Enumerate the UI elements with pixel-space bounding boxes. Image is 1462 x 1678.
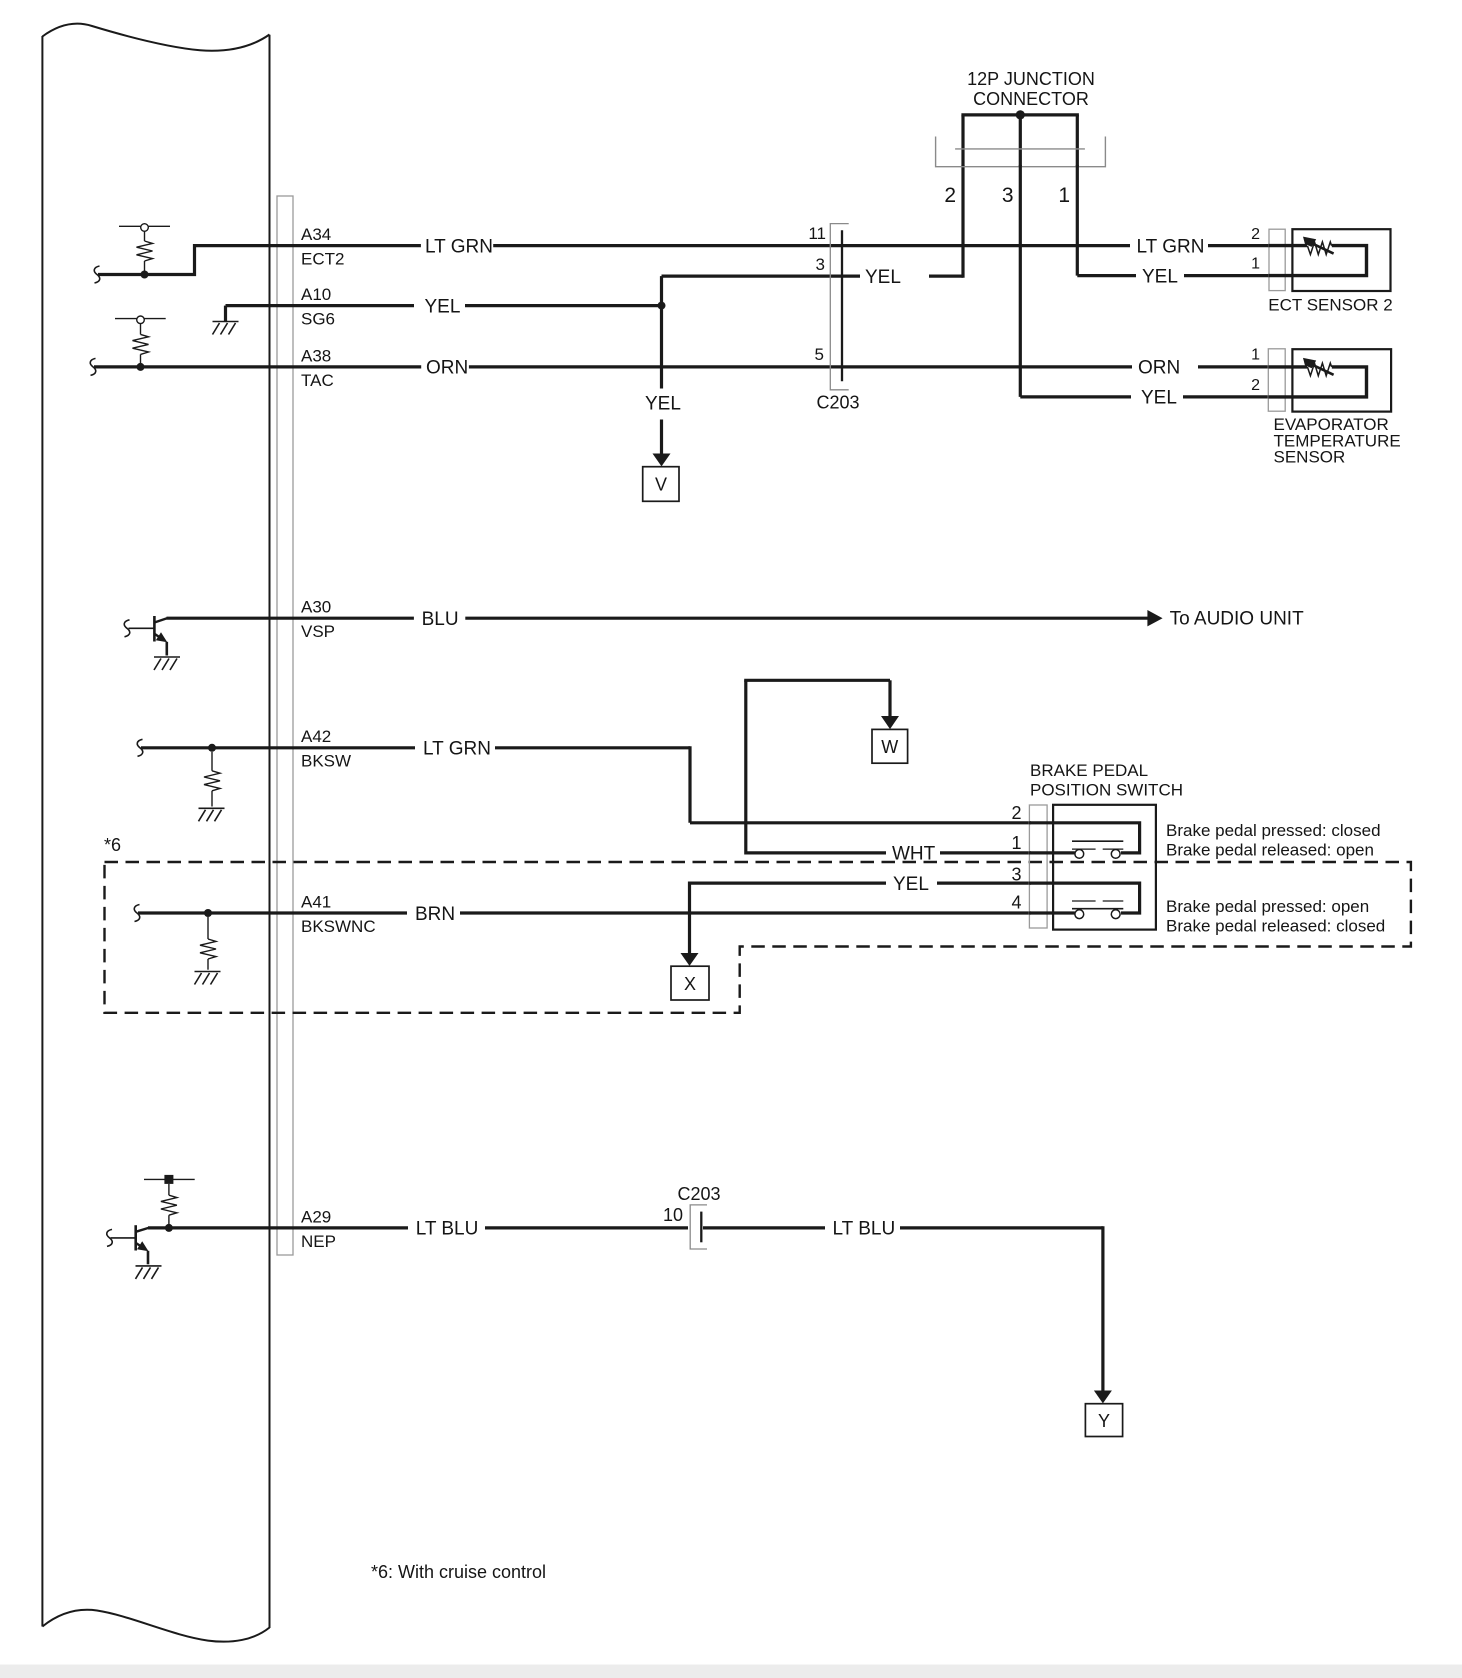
wire break mark A42: [137, 739, 142, 756]
svg-text:A42: A42: [301, 727, 331, 746]
ground symbol (NEP emitter): [136, 1266, 162, 1279]
svg-text:Y: Y: [1098, 1411, 1110, 1431]
svg-text:CONNECTOR: CONNECTOR: [973, 89, 1089, 109]
svg-text:NEP: NEP: [301, 1232, 336, 1251]
svg-text:BKSW: BKSW: [301, 752, 351, 771]
connector C203 (11/3/5): [830, 224, 848, 390]
ECT sensor 2 internal loop: [1268, 246, 1366, 276]
svg-text:A30: A30: [301, 598, 331, 617]
svg-text:11: 11: [808, 224, 826, 243]
resistor pull-down (BKSWNC): [200, 917, 216, 970]
W box: [872, 729, 908, 763]
svg-text:ECT2: ECT2: [301, 250, 344, 269]
svg-text:BKSWNC: BKSWNC: [301, 917, 376, 936]
transistor Q1 (VSP driver): [129, 627, 155, 629]
svg-text:BLU: BLU: [422, 609, 459, 630]
page bottom scan band: [0, 1665, 1462, 1678]
pin label A10 SG6: [301, 285, 335, 329]
wire break mark A41: [134, 905, 139, 922]
svg-text:1: 1: [1251, 347, 1260, 364]
wire A38 TAC / ORN main: [94, 365, 1268, 368]
svg-text:4: 4: [1011, 892, 1021, 912]
svg-text:YEL: YEL: [893, 874, 929, 895]
svg-text:YEL: YEL: [425, 296, 461, 317]
wire A29 NEP / LT BLU: [148, 1226, 1103, 1392]
svg-text:Brake pedal released: open: Brake pedal released: open: [1166, 840, 1374, 859]
thermistor evaporator sensor: [1303, 358, 1334, 376]
svg-text:To AUDIO UNIT: To AUDIO UNIT: [1170, 609, 1304, 630]
wire A30 VSP / BLU: [167, 617, 1149, 620]
junction dot ECT2 pull-up: [141, 271, 149, 279]
svg-text:*6: With cruise control: *6: With cruise control: [371, 1562, 546, 1582]
wire 12P pin3 to evaporator pin2 / YEL: [1020, 165, 1268, 397]
X box: [671, 966, 709, 1000]
svg-text:3: 3: [816, 255, 825, 274]
junction dot BKSW: [208, 744, 216, 752]
ECM/PCM body outline: [42, 24, 269, 1642]
svg-text:YEL: YEL: [1142, 266, 1178, 287]
brake switch connector strip: [1029, 805, 1047, 928]
svg-text:ORN: ORN: [1138, 358, 1180, 379]
wire WHT with W branch: [744, 680, 1031, 854]
svg-text:W: W: [881, 737, 898, 757]
svg-text:YEL: YEL: [1141, 388, 1177, 409]
svg-text:2: 2: [1251, 226, 1260, 243]
ECM connector strip: [277, 196, 293, 1255]
pin label A34 ECT2: [301, 225, 344, 269]
label EVAPORATOR TEMPERATURE SENSOR: [1274, 415, 1401, 467]
note upper switch behaviour: [1166, 821, 1381, 859]
svg-text:1: 1: [1251, 255, 1260, 272]
resistor pull-up (ECT2 line): [119, 224, 170, 275]
svg-text:5: 5: [815, 345, 824, 364]
brake switch upper contact loop: [1029, 823, 1140, 853]
pin label A42 BKSW: [301, 727, 351, 771]
wire 12P pin1 to ECT sensor pin1 / YEL: [1077, 165, 1268, 276]
svg-text:ORN: ORN: [426, 358, 468, 379]
wire C203 pin3 YEL to 12P pin 2: [662, 165, 964, 278]
12P junction connector body: [961, 115, 1079, 167]
resistor pull-down (BKSW): [204, 752, 220, 807]
ground symbol (BKSWNC): [195, 972, 221, 985]
connector C203 pin 10: [690, 1205, 707, 1249]
svg-text:*6: *6: [104, 835, 121, 855]
evaporator sensor box: [1292, 349, 1391, 411]
wire riser from SG6 dot down (to V arrow): [660, 306, 663, 389]
arrow into V box: [653, 420, 671, 467]
svg-text:ECT SENSOR 2: ECT SENSOR 2: [1268, 295, 1392, 314]
svg-text:YEL: YEL: [865, 267, 901, 288]
svg-text:BRN: BRN: [415, 904, 455, 925]
svg-text:A41: A41: [301, 892, 331, 911]
connector C203 inner contact line: [841, 230, 843, 381]
ECT sensor 2 box: [1292, 229, 1390, 291]
svg-text:Brake pedal pressed: open: Brake pedal pressed: open: [1166, 897, 1369, 916]
arrow into Y box: [1094, 1391, 1112, 1404]
Y box: [1085, 1404, 1122, 1437]
brake switch box: [1053, 805, 1156, 930]
svg-text:A29: A29: [301, 1207, 331, 1226]
svg-text:SENSOR: SENSOR: [1274, 448, 1346, 467]
wire break mark A38 internal: [90, 358, 95, 375]
svg-text:LT GRN: LT GRN: [425, 236, 493, 257]
arrow into X box: [681, 953, 699, 966]
svg-text:2: 2: [1251, 377, 1260, 394]
wire riser from SG6 dot up to pin3 wire: [660, 276, 663, 306]
junction dot NEP: [165, 1224, 173, 1232]
svg-text:Brake pedal pressed: closed: Brake pedal pressed: closed: [1166, 821, 1381, 840]
wire SG6 internal drop to ground: [224, 306, 227, 322]
wire A34 internal: [98, 246, 293, 275]
pin label A41 BKSWNC: [301, 892, 376, 936]
wire break mark NEP base: [107, 1229, 112, 1246]
wire A34 / LT GRN main: [293, 244, 1268, 247]
svg-text:12P JUNCTION: 12P JUNCTION: [967, 69, 1095, 89]
svg-text:Brake pedal released: closed: Brake pedal released: closed: [1166, 916, 1385, 935]
dashed option box *6: [105, 862, 1411, 1013]
ground symbol (VSP emitter): [154, 657, 180, 670]
svg-text:10: 10: [663, 1205, 683, 1225]
svg-text:A34: A34: [301, 225, 331, 244]
pin label A38 TAC: [301, 346, 334, 390]
resistor pull-up (TAC line): [115, 316, 166, 367]
junction dot SG6/C203 riser: [658, 302, 666, 310]
brake switch upper contacts: [1072, 841, 1123, 858]
svg-text:TAC: TAC: [301, 371, 334, 390]
thermistor ECT sensor 2: [1303, 237, 1334, 255]
svg-text:VSP: VSP: [301, 622, 335, 641]
svg-text:LT BLU: LT BLU: [416, 1219, 479, 1240]
wire break mark A34 internal: [94, 266, 99, 283]
svg-text:1: 1: [1011, 833, 1021, 853]
transistor Q2 (NEP driver): [111, 1237, 136, 1239]
wire A10 SG6 / YEL: [226, 304, 662, 307]
wire A41 BKSWNC / BRN: [138, 911, 1031, 914]
resistor pull-up (NEP): [161, 1184, 177, 1228]
junction dot BKSWNC: [204, 909, 212, 917]
svg-text:BRAKE PEDAL: BRAKE PEDAL: [1030, 761, 1148, 780]
svg-text:V: V: [655, 475, 667, 495]
ground symbol (BKSW): [199, 808, 225, 821]
svg-text:2: 2: [944, 184, 956, 207]
wire YEL (brake pin 3) with X branch: [690, 882, 1032, 955]
svg-text:X: X: [684, 974, 696, 994]
svg-text:1: 1: [1058, 184, 1070, 207]
brake switch lower contact loop: [1029, 883, 1140, 913]
pin label A30 VSP: [301, 598, 335, 642]
svg-text:LT GRN: LT GRN: [423, 739, 491, 760]
wire A42 BKSW / LT GRN: [141, 746, 1031, 823]
svg-text:3: 3: [1002, 184, 1014, 207]
arrow to audio unit: [1147, 610, 1162, 626]
svg-text:C203: C203: [816, 392, 859, 412]
svg-text:A10: A10: [301, 285, 331, 304]
evaporator sensor connector strip: [1268, 349, 1285, 411]
svg-text:POSITION SWITCH: POSITION SWITCH: [1030, 780, 1183, 799]
junction dot TAC pull-up: [137, 363, 145, 371]
evaporator sensor internal loop: [1268, 367, 1366, 397]
arrow into W box: [881, 716, 899, 729]
ground symbol (SG6): [213, 322, 239, 335]
junction dot 12P top: [1016, 110, 1025, 119]
svg-text:YEL: YEL: [645, 394, 681, 415]
svg-text:C203: C203: [677, 1184, 720, 1204]
12P receptacle comb: [936, 137, 1106, 167]
brake switch lower contacts: [1072, 901, 1123, 919]
V box: [643, 467, 679, 502]
svg-text:3: 3: [1011, 864, 1021, 884]
svg-text:SG6: SG6: [301, 310, 335, 329]
power symbol (NEP pull-up): [144, 1175, 195, 1184]
svg-text:A38: A38: [301, 346, 331, 365]
note lower switch behaviour: [1166, 897, 1385, 935]
ECT sensor 2 connector strip: [1269, 229, 1285, 290]
wire break mark VSP base: [124, 620, 129, 637]
pin label A29 NEP: [301, 1207, 336, 1251]
svg-text:2: 2: [1011, 803, 1021, 823]
svg-text:LT GRN: LT GRN: [1137, 236, 1205, 257]
svg-text:LT BLU: LT BLU: [833, 1219, 896, 1240]
